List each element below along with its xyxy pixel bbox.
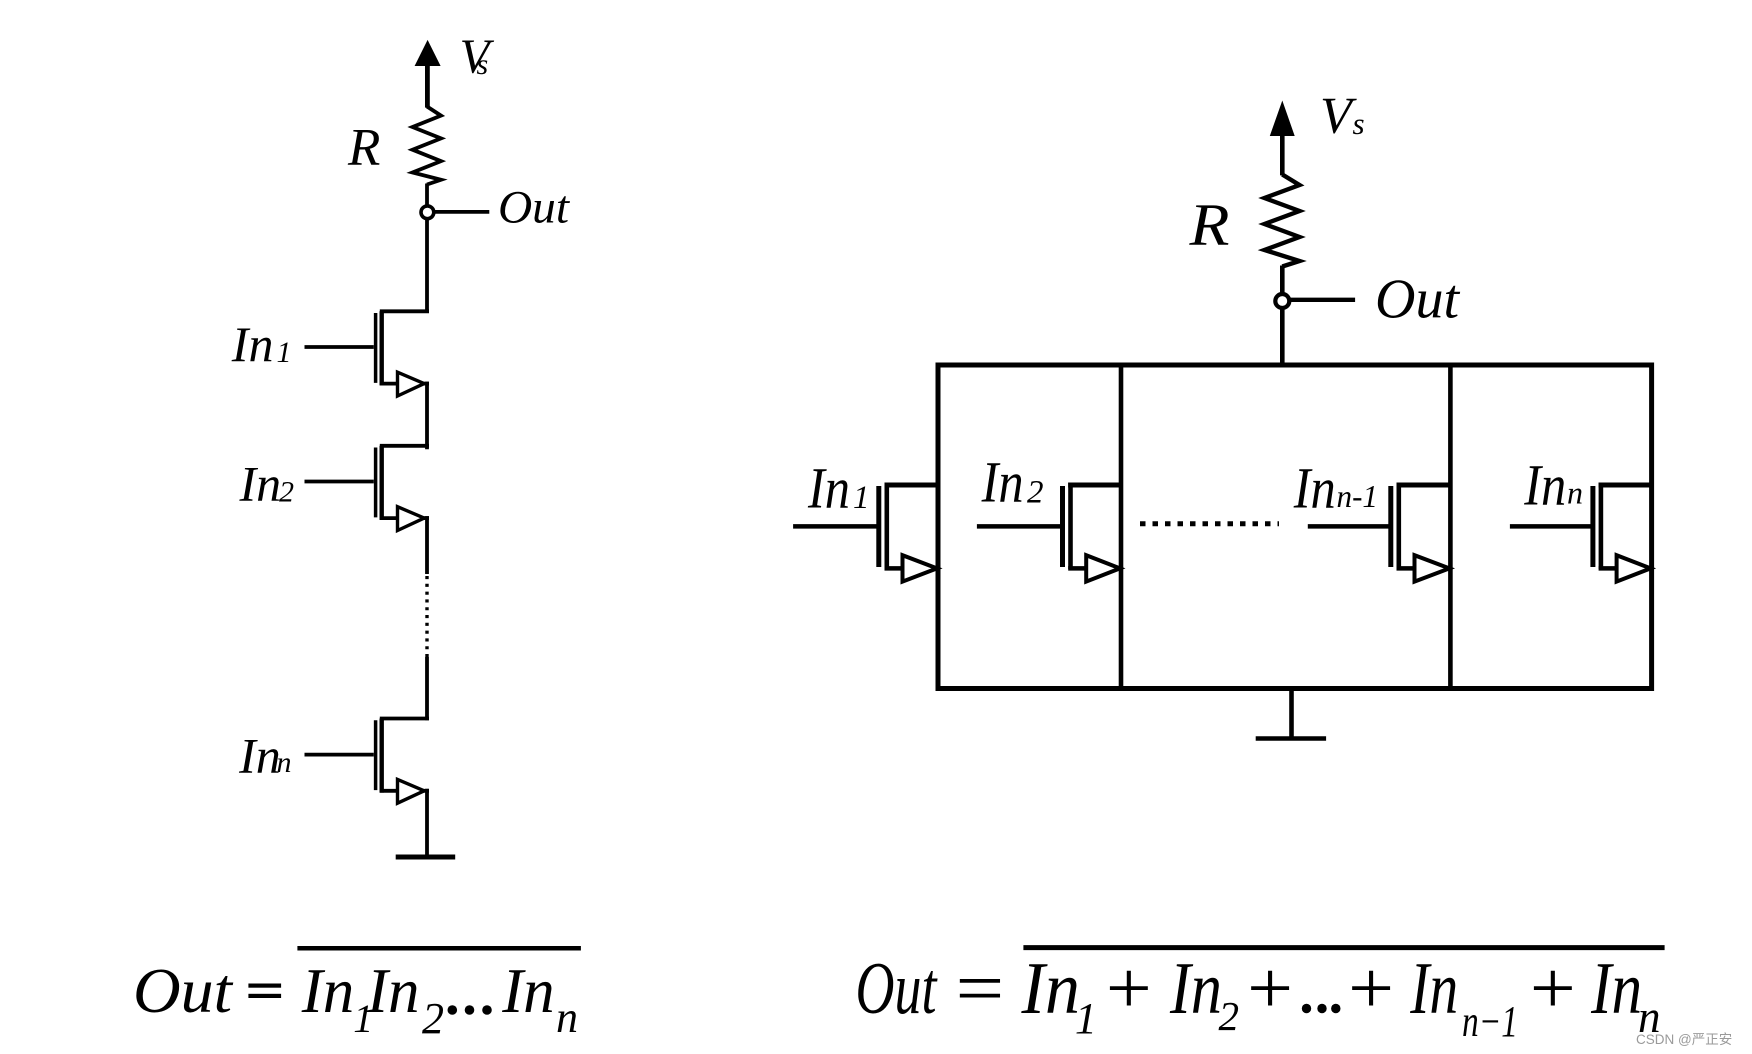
svg-text:In: In [1169,948,1222,1030]
svg-text:1: 1 [1075,994,1097,1043]
wire: In1 gate lead (left) [305,345,374,349]
ground (left) [396,855,456,860]
wire: M1 source to M2 drain (left) [425,382,429,450]
transistor Q2 (In2, right) [1063,483,1124,582]
svg-text:s: s [477,48,489,81]
svg-text:Out: Out [133,956,234,1026]
wire: In1 gate lead (right) [793,524,878,529]
resistor R (right) [1265,175,1300,267]
vertical bus: Q1 drain-source (left edge, right circuit) [936,363,941,692]
formula right: Out = In1 + In2 + ... + Inn-1 + Inn [856,948,1661,1046]
formula left: Out = In1 In2 ... Inn [133,956,578,1043]
svg-text:In: In [1021,948,1080,1030]
transistor Q1 (In1, right) [879,483,940,582]
wire: resistor to output node (right) [1280,266,1285,295]
wire: node to top rail (right) [1280,309,1285,368]
svg-text:In: In [238,727,281,783]
svg-text:n: n [277,746,292,779]
svg-text:Out: Out [1375,269,1460,331]
transistor M2 (In2, left) [376,446,429,531]
svg-text:CSDN @严正安: CSDN @严正安 [1636,1032,1732,1047]
svg-text:R: R [347,119,380,177]
svg-text:1: 1 [853,480,870,516]
top rail (drain bus, right) [936,363,1655,368]
wire: Inn gate lead (right) [1510,524,1592,529]
dotted ellipsis wire (left) [425,576,428,658]
svg-text:n−1: n−1 [1462,997,1518,1046]
svg-text:=: = [950,948,1008,1030]
svg-text:s: s [1353,106,1365,141]
vertical bus: Qn-1 drain-source (right circuit) [1448,363,1453,692]
svg-text:In: In [807,456,850,521]
svg-text:In: In [1523,453,1566,518]
svg-text:+: + [1525,948,1580,1030]
transistor Qn (Inn, right) [1593,483,1654,582]
wire: Out stub (right) [1291,298,1356,302]
svg-text:n: n [1567,475,1583,511]
svg-text:n: n [556,993,578,1042]
svg-text:Out: Out [498,182,570,234]
formula left overline [297,946,581,951]
node: Out junction (right) [1275,294,1289,308]
wire: node to M1 drain (left) [425,220,429,314]
svg-text:2: 2 [1027,475,1044,511]
formula right overline [1023,945,1664,950]
wire: bottom rail to ground (right) [1289,689,1294,738]
wire: resistor to output node (left) [425,184,429,206]
wire: Out stub (left) [435,210,490,214]
svg-text:In: In [231,316,274,372]
svg-text:V: V [1320,88,1357,145]
svg-text:2: 2 [279,476,294,509]
transistor Mn (Inn, left) [376,719,429,804]
svg-text:R: R [1188,192,1229,258]
svg-text:n-1: n-1 [1337,478,1379,514]
svg-text:+: + [1242,948,1297,1030]
svg-text:Out: Out [856,948,939,1030]
vertical bus: Qn drain-source (right edge, right circuit) [1649,363,1654,692]
wire: Inn-1 gate lead (right) [1308,524,1390,529]
bottom rail (source bus, right) [936,686,1655,691]
wire: M2 source down (left) [425,516,429,574]
svg-text:In: In [501,956,554,1026]
wire: Mn source to ground (left) [425,789,429,855]
vertical bus: Q2 drain-source (right circuit) [1119,363,1124,692]
svg-text:+: + [1101,948,1156,1030]
dotted ellipsis wire (right) [1140,521,1279,526]
svg-text:2: 2 [1219,993,1240,1039]
svg-text:In: In [366,956,419,1026]
svg-text:+: + [1343,948,1398,1030]
wire: down to Mn drain (left) [425,657,429,720]
Vs supply arrow (left) [415,41,439,108]
svg-text:In: In [1590,948,1642,1030]
svg-text:In: In [1409,948,1458,1030]
Vs supply arrow (right) [1271,102,1295,175]
ground (right) [1256,736,1326,741]
svg-text:1: 1 [277,336,292,369]
svg-text:In: In [1293,456,1336,521]
transistor M1 (In1, left) [376,311,429,396]
svg-text:In: In [239,456,282,512]
node: Out junction (left) [421,206,434,219]
svg-text:In: In [301,956,354,1026]
svg-text:2: 2 [422,994,444,1043]
transistor Qn-1 (Inn-1, right) [1391,483,1453,582]
wire: In2 gate lead (left) [305,480,374,484]
resistor R (left) [413,107,442,185]
wire: In2 gate lead (right) [977,524,1062,529]
svg-text:In: In [981,450,1024,515]
wire: Inn gate lead (left) [305,753,374,757]
